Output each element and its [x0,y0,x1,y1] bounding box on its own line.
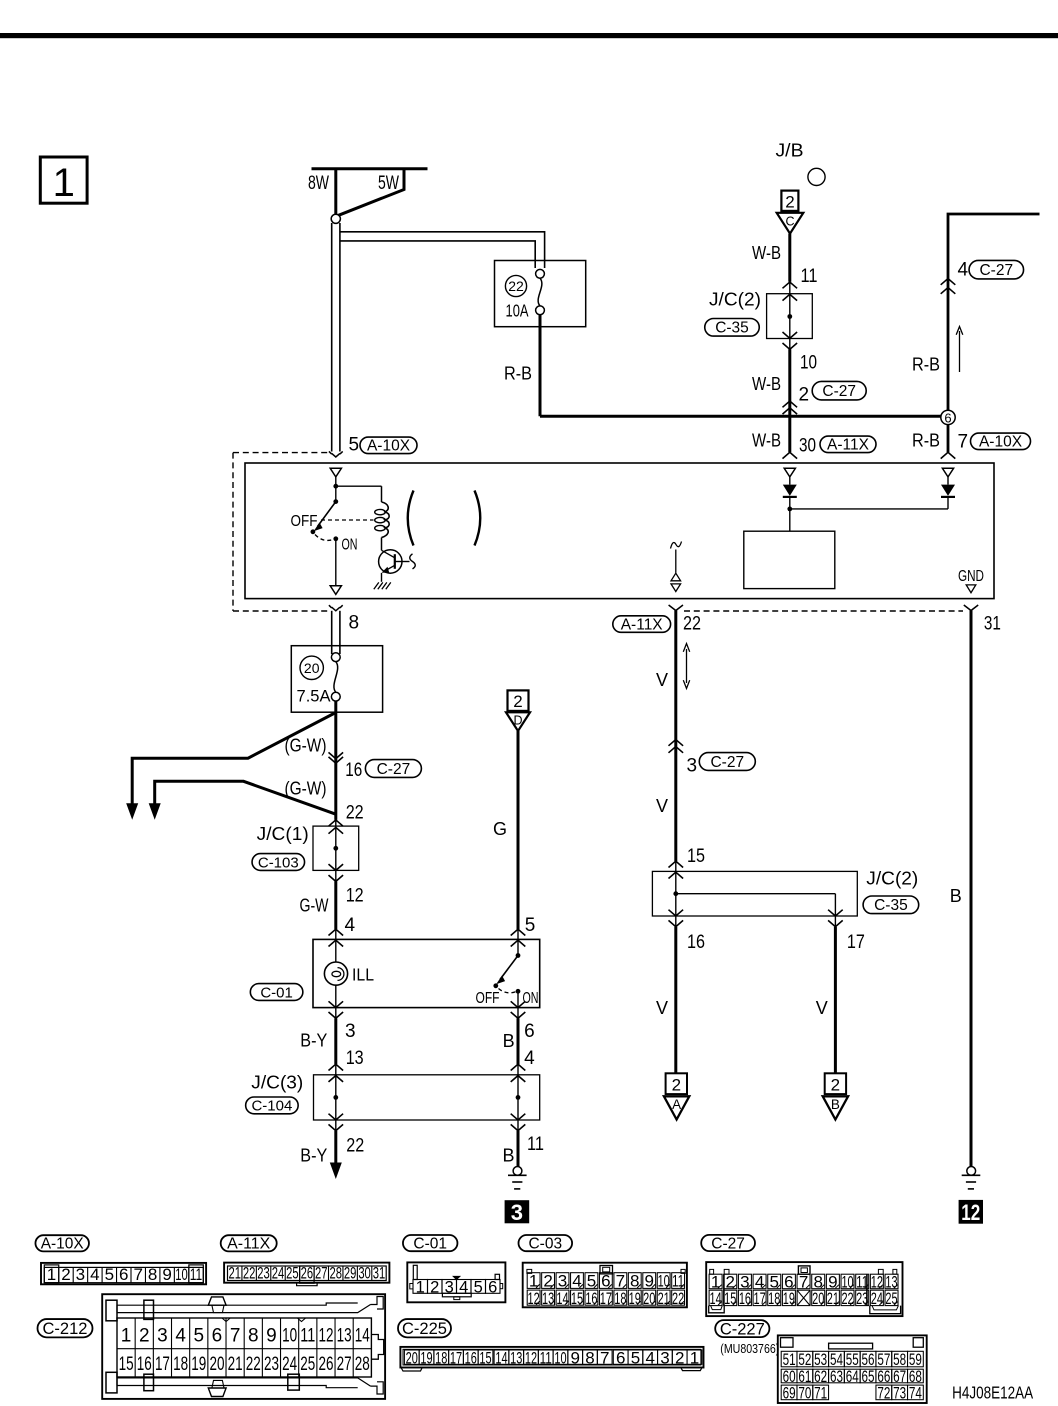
page ref 3 box [505,1200,530,1223]
svg-text:2: 2 [139,1326,150,1347]
svg-text:5: 5 [349,435,360,456]
svg-text:A-11X: A-11X [827,437,870,454]
svg-text:24: 24 [871,1289,883,1308]
svg-text:V: V [656,998,668,1018]
wire B pin6 [517,1018,520,1064]
svg-text:5: 5 [193,1326,204,1347]
svg-text:B: B [950,886,962,906]
fuse 20 id circle [300,656,323,679]
svg-text:13: 13 [542,1289,554,1308]
wire 5W drop [339,169,405,216]
svg-text:17: 17 [450,1348,462,1367]
svg-text:1: 1 [53,161,75,205]
switch blade OFF [318,502,336,527]
svg-text:17: 17 [155,1354,170,1375]
svg-text:3: 3 [511,1200,523,1225]
svg-text:B: B [831,1097,840,1112]
label C-01 [250,984,303,1001]
svg-text:25: 25 [286,1263,299,1282]
svg-text:J/C(2): J/C(2) [866,869,918,889]
connector A-11X pinout [224,1263,389,1283]
svg-text:11: 11 [540,1348,552,1367]
component box body [245,463,994,599]
svg-text:7: 7 [958,432,969,453]
svg-text:20: 20 [643,1289,655,1308]
svg-text:22: 22 [508,278,524,294]
svg-text:6: 6 [524,1021,535,1042]
svg-text:22: 22 [841,1289,853,1308]
svg-text:16: 16 [137,1354,152,1375]
svg-text:7: 7 [799,1273,808,1292]
connector chevrons J/C(2)b left exit [669,910,684,916]
svg-text:19: 19 [420,1348,432,1367]
svg-text:8: 8 [248,1326,259,1347]
svg-text:4: 4 [175,1326,186,1347]
svg-text:4: 4 [645,1348,654,1367]
wire W-B from J/B C [788,234,791,282]
svg-text:V: V [656,796,668,816]
svg-text:18: 18 [173,1354,188,1375]
timer block [744,531,835,588]
antenna squiggle [671,542,682,549]
svg-text:8: 8 [349,613,360,634]
svg-text:16: 16 [687,932,705,953]
diagram index box 1 [40,157,87,203]
svg-text:27: 27 [337,1354,352,1375]
wire V to connector A [674,927,677,1074]
svg-text:C-27: C-27 [711,1235,745,1252]
svg-text:A-10X: A-10X [979,434,1023,451]
svg-text:23: 23 [257,1263,270,1282]
svg-text:15: 15 [479,1348,491,1367]
svg-text:C-35: C-35 [874,897,908,914]
connector C-27 heavy dividers [866,1274,868,1305]
connector C-212 pinout [102,1294,385,1399]
connector A-11X cell 26 tab [300,1266,314,1283]
connector pin 7 chevron [941,452,956,458]
svg-text:14: 14 [495,1348,507,1367]
svg-text:11: 11 [190,1265,203,1284]
svg-text:2: 2 [831,1076,840,1095]
inline connector chevrons 2 C-27 [783,401,798,407]
dome lamp switch [517,929,519,955]
branch arrow 2 G-W [155,781,336,814]
connector C-212 grid [117,1318,371,1377]
svg-text:12: 12 [346,885,364,906]
connector pin 5 fishtail [329,451,343,457]
svg-text:B: B [503,1031,515,1051]
connector label A-10X [35,1235,88,1251]
svg-text:V: V [816,998,828,1018]
svg-text:ON: ON [523,990,539,1007]
svg-text:ON: ON [342,537,358,554]
svg-text:15: 15 [687,846,705,867]
svg-text:C-27: C-27 [822,383,856,400]
connector chevrons C-01 pin4 entry [329,929,344,935]
switch dashed arc C-01 [499,989,516,993]
svg-text:R-B: R-B [912,431,940,451]
svg-text:C-35: C-35 [715,320,749,337]
svg-text:3: 3 [660,1348,669,1367]
svg-text:15: 15 [571,1289,583,1308]
svg-text:12: 12 [525,1348,537,1367]
connector 2-D box [508,690,529,711]
svg-text:9: 9 [266,1326,277,1347]
switch ON contact [333,536,338,541]
direction arrow up [959,331,961,372]
label C-103 [252,854,304,871]
wire G-W below fuse 20 [334,701,337,820]
connector label C-227 [715,1320,769,1337]
label C-35 top [705,319,760,337]
wire B-Y to arrow [334,1131,337,1165]
svg-text:G: G [493,819,507,839]
page ref 12 box [959,1200,983,1224]
wire 8W/5W bus [312,167,428,170]
fuse 22 id circle [505,275,526,296]
junction connector J/C(3) C-104 box [314,1075,540,1120]
svg-text:71: 71 [814,1384,827,1403]
connector C-27 pinout [706,1262,902,1316]
svg-text:15: 15 [119,1354,134,1375]
fuse 22 terminals and element [536,269,545,278]
svg-text:14: 14 [355,1326,370,1347]
svg-text:13: 13 [337,1326,352,1347]
svg-text:7: 7 [230,1326,241,1347]
svg-text:1: 1 [47,1265,56,1284]
svg-text:7: 7 [600,1348,609,1367]
svg-text:24: 24 [272,1263,285,1282]
svg-text:16: 16 [739,1289,751,1308]
svg-text:B: B [502,1146,514,1166]
junction connector J/C(1) C-103 box [313,826,359,870]
svg-text:31: 31 [373,1263,386,1282]
J/B internal double wire to fuse 22 [340,232,545,268]
svg-text:26: 26 [318,1354,333,1375]
wire W-B middle [788,349,791,452]
wire R-B from fuse 22 [539,315,542,417]
junction connector J/C(2) C-35 box bottom [652,871,857,916]
inline connector chevrons 4 C-27 [941,279,956,285]
svg-text:14: 14 [556,1289,568,1308]
svg-text:C: C [785,215,794,229]
page frame top bar [0,33,1058,38]
svg-text:70: 70 [798,1384,811,1403]
wire B to ground [517,1131,520,1167]
svg-text:2: 2 [513,692,522,711]
lamp ILL [335,929,337,961]
connector fishtails C-01 pin3 exit [329,1001,344,1007]
svg-text:C-27: C-27 [979,262,1013,279]
svg-text:5: 5 [631,1348,640,1367]
double direction arrow [686,649,688,683]
svg-text:9: 9 [162,1265,171,1284]
svg-text:9: 9 [570,1348,579,1367]
fuse 20 terminals and element [331,653,340,662]
svg-text:16: 16 [345,760,362,781]
svg-text:C-104: C-104 [251,1098,292,1115]
connector chevrons J/C(2)b entry [669,861,684,867]
svg-text:20: 20 [406,1348,418,1367]
svg-text:24: 24 [282,1354,297,1375]
svg-text:27: 27 [315,1263,328,1282]
svg-text:13: 13 [510,1348,522,1367]
svg-text:J/C(1): J/C(1) [257,824,309,844]
svg-text:2: 2 [61,1265,70,1284]
svg-text:W-B: W-B [752,243,781,263]
svg-text:V: V [656,670,668,690]
svg-text:20: 20 [304,660,320,676]
wire R-B riser and top run [948,214,1040,410]
svg-text:23: 23 [264,1354,279,1375]
svg-text:8W: 8W [308,173,329,194]
svg-text:5: 5 [474,1278,483,1296]
svg-text:11: 11 [300,1326,315,1347]
svg-text:A-10X: A-10X [367,438,411,455]
inline connector chevrons 16 C-27 [329,752,344,758]
svg-text:17: 17 [847,932,865,953]
svg-text:65: 65 [862,1367,875,1386]
svg-text:29: 29 [344,1263,357,1282]
connector C-225 pinout [400,1347,703,1368]
svg-text:64: 64 [846,1367,859,1386]
junction connector J/C(2) C-35 box top [767,294,813,339]
svg-text:73: 73 [893,1384,906,1403]
pin 31 triangle inside [966,585,976,593]
svg-text:25: 25 [885,1289,897,1308]
svg-text:28: 28 [329,1263,342,1282]
svg-text:2: 2 [799,385,810,406]
svg-text:18: 18 [435,1348,447,1367]
svg-text:12: 12 [318,1326,333,1347]
svg-text:A-11X: A-11X [227,1236,271,1253]
svg-text:J/B: J/B [776,141,804,161]
svg-text:B-Y: B-Y [300,1031,327,1051]
svg-text:19: 19 [783,1289,795,1308]
svg-text:C-103: C-103 [258,854,299,871]
svg-text:6: 6 [488,1278,497,1296]
component name parentheses [408,491,414,546]
relay coil [381,486,383,502]
transistor Q1 [379,550,402,573]
ground body right [967,1167,976,1176]
svg-text:7: 7 [133,1265,142,1284]
svg-text:13: 13 [346,1048,364,1069]
svg-text:G-W: G-W [300,896,329,916]
svg-text:12: 12 [528,1289,540,1308]
svg-text:25: 25 [300,1354,315,1375]
svg-text:30: 30 [799,436,816,457]
connector 2-C box [781,191,798,211]
connector C-27 crossed cell [797,1290,810,1305]
label C-35 bottom [863,896,919,914]
svg-text:22: 22 [243,1263,256,1282]
svg-text:W-B: W-B [752,374,781,394]
svg-text:22: 22 [246,1354,261,1375]
svg-text:4: 4 [90,1265,99,1284]
connector A-10X end cells [44,1265,58,1283]
wire 8W drop [334,169,337,216]
svg-text:1: 1 [121,1326,132,1347]
svg-text:3: 3 [76,1265,85,1284]
pin 8 fishtail [329,605,343,611]
svg-text:C-227: C-227 [720,1320,765,1338]
connector chevrons J/C(1) entry [329,820,344,826]
svg-text:17: 17 [600,1289,612,1308]
svg-text:6: 6 [212,1326,223,1347]
connector chevrons J/C(1) exit [329,864,344,870]
connector chevrons J/C(3) left entry [329,1064,344,1070]
svg-text:5: 5 [105,1265,114,1284]
svg-text:18: 18 [614,1289,626,1308]
svg-text:C-03: C-03 [528,1236,562,1253]
label C-104 [246,1097,299,1114]
svg-text:ILL: ILL [352,964,374,984]
connector C-03 pinout [523,1263,687,1308]
svg-text:63: 63 [830,1367,843,1386]
svg-text:C-212: C-212 [43,1320,88,1338]
svg-text:28: 28 [355,1354,370,1375]
svg-text:74: 74 [909,1384,922,1403]
svg-text:R-B: R-B [912,355,940,375]
svg-text:2: 2 [430,1278,439,1296]
component box dashed outline [233,452,328,454]
svg-text:2: 2 [672,1076,681,1095]
connector 2-A triangle [664,1096,689,1119]
svg-text:C-225: C-225 [402,1320,447,1338]
diode D2 [947,477,949,485]
svg-text:22: 22 [346,1136,364,1157]
connector pin 30 chevron [783,452,798,458]
junction ring lamp bus [331,214,340,223]
svg-text:D: D [513,714,522,728]
wire ON to pin 8 [335,541,337,586]
connector A-10X pinout [41,1263,206,1284]
dome lamp C-01 box [313,939,540,1007]
svg-text:3: 3 [687,756,698,777]
svg-text:10: 10 [554,1348,566,1367]
wire R-B horizontal run [540,415,941,418]
J/B internal double wire to pin 5 [331,223,333,452]
svg-text:OFF: OFF [476,990,500,1007]
svg-text:22: 22 [346,802,364,823]
connector chevrons J/C(2) exit [783,332,798,338]
svg-text:19: 19 [191,1354,206,1375]
switch dashed arc to ON [315,535,334,541]
svg-text:4: 4 [345,915,356,936]
diode D1 [789,477,791,485]
wire B-Y pin3 [334,1018,337,1064]
svg-text:A: A [672,1097,681,1112]
wire to relay coil [336,485,382,487]
fuse 20 7.5A box [291,646,382,713]
svg-text:3: 3 [345,1021,356,1042]
svg-text:16: 16 [585,1289,597,1308]
svg-text:J/C(3): J/C(3) [251,1072,303,1092]
svg-text:20: 20 [209,1354,224,1375]
svg-text:A-10X: A-10X [41,1236,85,1253]
svg-text:18: 18 [768,1289,780,1308]
svg-text:R-B: R-B [504,364,532,384]
J/B internal double wire pin8 to fuse 20 [331,611,333,654]
junction ring 6 [941,410,955,424]
svg-text:1: 1 [416,1278,425,1296]
svg-text:C-01: C-01 [413,1236,447,1253]
connector chevrons J/C(2)b right exit [828,910,843,916]
connector fishtails C-01 pin6 exit [511,1001,526,1007]
wire R-B to pin 7 [947,425,950,453]
wire V to connector B [834,927,837,1074]
connector label A-11X [221,1235,277,1251]
node lamp switch top [335,477,337,502]
svg-text:8: 8 [148,1265,157,1284]
svg-text:31: 31 [984,614,1001,635]
svg-text:C-27: C-27 [710,754,744,771]
svg-text:17: 17 [753,1289,765,1308]
svg-text:30: 30 [358,1263,371,1282]
svg-text:19: 19 [629,1289,641,1308]
svg-text:10: 10 [175,1265,188,1284]
connector 2-C triangle [777,213,804,234]
svg-text:W-B: W-B [752,431,781,451]
svg-text:(MU803766): (MU803766) [720,1342,779,1356]
wire B ground run [970,611,973,1167]
svg-text:10: 10 [800,353,817,374]
svg-text:5: 5 [525,915,536,936]
svg-text:20: 20 [812,1289,824,1308]
pin 30 triangle inside [784,468,795,477]
wire G-W to C-01 [334,881,337,929]
inline connector chevrons 3 C-27 [669,740,684,746]
pin 22 fishtail [669,605,683,611]
svg-text:3: 3 [157,1326,168,1347]
svg-text:B-Y: B-Y [300,1146,327,1166]
fuse 22 10A box [495,261,586,327]
svg-text:4: 4 [524,1048,535,1069]
svg-text:8: 8 [585,1348,594,1367]
svg-text:21: 21 [228,1263,241,1282]
wire G [517,731,520,929]
connector C-212 bottom band [117,1378,371,1388]
svg-text:22: 22 [672,1289,684,1308]
svg-text:J/C(2): J/C(2) [709,290,761,310]
connector label C-27 [701,1235,755,1251]
svg-text:(G-W): (G-W) [285,736,327,756]
ground body left [513,1167,522,1176]
svg-text:5W: 5W [378,173,399,194]
svg-text:21: 21 [658,1289,670,1308]
pin 5 triangle inside [330,468,341,477]
svg-text:A-11X: A-11X [621,617,664,634]
svg-text:72: 72 [877,1384,890,1403]
svg-text:12: 12 [961,1200,980,1225]
svg-text:2: 2 [785,192,794,211]
svg-text:6: 6 [119,1265,128,1284]
svg-text:7.5A: 7.5A [297,687,332,706]
switch dashed link to coil [321,519,374,521]
connector fishtails J/C(3) left exit [329,1114,344,1120]
svg-text:11: 11 [527,1134,544,1155]
connector chevrons pin 11 [783,282,798,288]
svg-text:6: 6 [944,410,951,425]
connector chevrons C-01 pin5 entry [511,929,526,935]
connector C-227 pinout [778,1335,927,1403]
svg-text:16: 16 [465,1348,477,1367]
connector C-27 bottom skirts [709,1306,725,1313]
svg-text:6: 6 [616,1348,625,1367]
svg-text:69: 69 [783,1384,796,1403]
svg-text:(G-W): (G-W) [285,779,327,799]
